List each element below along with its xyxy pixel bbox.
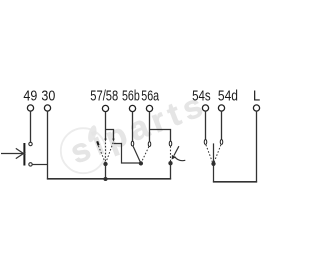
wire 49 down bbox=[30, 111, 32, 142]
wire 56b down bbox=[132, 112, 134, 142]
wire 56a down bbox=[149, 112, 151, 142]
wire lower contact to 30 line bbox=[32, 164, 47, 166]
wiper 54 solid bbox=[213, 143, 215, 182]
terminal 54s bbox=[202, 105, 208, 111]
actuator arrow barb upper bbox=[16, 148, 26, 154]
wire 54s down bbox=[205, 111, 207, 139]
terminal 57/58 bbox=[102, 105, 108, 111]
solid arm 56b to dot B bbox=[133, 146, 140, 162]
svg-text:54d: 54d bbox=[218, 89, 238, 105]
watermark leaf (i-dot) bbox=[87, 124, 98, 143]
lever curved tail bbox=[175, 157, 186, 161]
contact oval 54s bbox=[204, 140, 207, 145]
wire branch 56a right bbox=[150, 130, 171, 142]
terminal 56b bbox=[129, 105, 135, 111]
lever arm bbox=[174, 146, 179, 155]
contact oval 54d bbox=[220, 140, 223, 145]
bus line left/middle bbox=[47, 178, 171, 180]
lever junction dot D bbox=[168, 161, 172, 165]
wire dot A to bus bbox=[105, 164, 107, 179]
contact oval 56b bbox=[131, 141, 134, 146]
svg-text:57/58: 57/58 bbox=[90, 89, 118, 105]
fixed contact bar left bbox=[97, 141, 98, 145]
contact oval lever bbox=[169, 141, 172, 146]
dashed arm 56a to dot B bbox=[141, 147, 149, 163]
wire C (branch contact to 56 wiper) bbox=[114, 144, 141, 164]
svg-text:L: L bbox=[253, 89, 260, 105]
wiper junction dot A bbox=[103, 162, 107, 166]
dashed arm 54d bbox=[214, 145, 221, 163]
terminal 30 bbox=[44, 105, 50, 111]
watermark circle bbox=[61, 128, 106, 173]
junction dot on bus bbox=[103, 177, 107, 181]
actuator arrow line bbox=[1, 153, 23, 155]
wiper junction dot E bbox=[211, 162, 215, 166]
bus line right bbox=[213, 181, 257, 183]
terminal 54d bbox=[218, 105, 224, 111]
terminal 49 bbox=[27, 105, 33, 111]
svg-text:30: 30 bbox=[41, 89, 55, 105]
contact circle upper (49 side) bbox=[29, 142, 32, 145]
wiper junction dot B bbox=[139, 161, 143, 165]
contact circle lower (30 side) bbox=[29, 163, 32, 166]
terminal L bbox=[253, 105, 259, 111]
dashed arm 54s bbox=[206, 145, 213, 163]
switch bar S1 bbox=[23, 143, 25, 166]
wire branch 57/58 right bbox=[106, 130, 114, 140]
wire 30 down bbox=[47, 111, 49, 180]
wire 57/58 down bbox=[105, 112, 107, 140]
svg-text:56a: 56a bbox=[141, 89, 159, 105]
contact oval 56a bbox=[148, 142, 151, 147]
contact tip 57/58 center bbox=[104, 139, 106, 142]
terminal 56a bbox=[146, 105, 152, 111]
dashed lever line bbox=[170, 146, 172, 161]
svg-text:54s: 54s bbox=[192, 89, 211, 105]
dashed wiper left arm bbox=[98, 146, 105, 163]
svg-text:49: 49 bbox=[23, 89, 37, 105]
svg-text:56b: 56b bbox=[122, 89, 140, 105]
wire L down bbox=[256, 111, 258, 182]
dashed wiper center bbox=[105, 143, 107, 163]
lever arrowhead bbox=[172, 155, 176, 160]
contact tip branch bbox=[112, 139, 114, 142]
actuator arrow barb lower bbox=[16, 152, 26, 158]
wire dot D to bus bbox=[170, 163, 172, 179]
wire 54d down bbox=[221, 111, 223, 139]
dashed wiper right arm bbox=[106, 143, 113, 163]
